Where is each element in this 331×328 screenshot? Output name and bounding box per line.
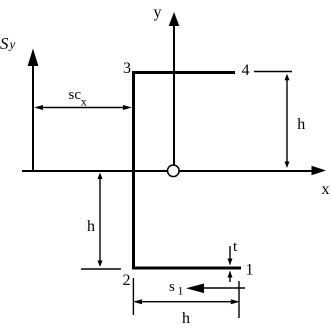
sc_x label xyxy=(69,87,87,109)
dimension t xyxy=(228,246,233,282)
svg-text:h: h xyxy=(297,116,305,133)
dimension h (left side) xyxy=(81,173,121,270)
svg-text:h: h xyxy=(182,310,190,327)
section top flange (node 3 to node 4) xyxy=(132,71,235,74)
svg-text:1: 1 xyxy=(178,284,184,298)
dimension h (right side) xyxy=(254,72,292,169)
svg-text:S: S xyxy=(0,34,9,53)
y-axis xyxy=(169,12,180,165)
section web (node 3 to node 2) xyxy=(132,71,135,270)
svg-text:3: 3 xyxy=(123,60,131,77)
svg-text:y: y xyxy=(154,4,162,21)
svg-text:h: h xyxy=(87,218,95,235)
svg-text:y: y xyxy=(8,37,16,52)
svg-text:1: 1 xyxy=(246,262,254,279)
Sy label xyxy=(0,34,16,53)
svg-text:x: x xyxy=(322,181,330,198)
Sy axis xyxy=(28,49,39,173)
svg-text:sc: sc xyxy=(69,87,82,103)
svg-text:2: 2 xyxy=(123,272,131,289)
dimension s1 arrow xyxy=(186,284,245,294)
x-axis xyxy=(22,166,326,176)
dimension h (bottom) xyxy=(133,278,240,318)
svg-text:x: x xyxy=(81,95,87,109)
section bottom flange (node 2 to node 1) xyxy=(132,267,241,270)
s1 label xyxy=(169,279,184,298)
dimension sc_x xyxy=(34,105,132,110)
svg-text:4: 4 xyxy=(242,62,250,79)
svg-text:s: s xyxy=(169,279,175,295)
shear center circle at origin xyxy=(168,165,180,177)
